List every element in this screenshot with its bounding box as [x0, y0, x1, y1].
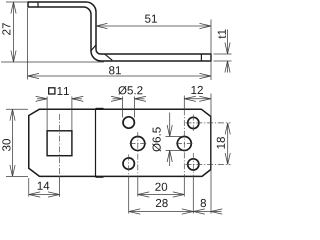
extension line H4 column to 20-dim — [183, 177, 185, 197]
dimension 6.5 extension lines — [166, 136, 184, 138]
dimension 14 label — [38, 182, 50, 190]
plan view: bend zone edge segment at bottom — [96, 176, 104, 178]
dimension 51 extension line right — [210, 20, 212, 81]
centerline vertical through H2 — [137, 132, 139, 177]
dimension 30 label — [2, 139, 10, 151]
dimension 11 arrows — [37, 98, 47, 100]
hole H2 (6.5mm, middle left) — [131, 137, 145, 151]
hole H5 (5.2mm, top right) — [188, 117, 199, 128]
plan view: plate outline with corner chamfers — [29, 109, 211, 176]
hole H4 (6.5mm, middle right) — [177, 137, 191, 151]
extension line H3 column to 28-dim — [128, 177, 130, 214]
side view: bracket Z-profile outline — [28, 2, 211, 61]
hole H6 (5.2mm, bottom right) — [188, 159, 199, 170]
centerline horizontal through H4 — [176, 143, 193, 145]
dimension 28 line — [129, 211, 211, 213]
centerline vertical through H3 — [128, 155, 130, 177]
side view: chamfer edge tick near plate right end — [200, 54, 202, 61]
dimension 30 extension lines — [6, 108, 28, 110]
dimension dia6.5 label — [152, 127, 161, 151]
centerline horizontal through H6 — [186, 163, 231, 165]
hole H1 (5.2mm, top left) — [123, 117, 134, 128]
side view: edge tick on top flange — [37, 2, 39, 7]
dimension 30 line — [12, 110, 14, 176]
dimension square-11 label — [49, 88, 55, 94]
centerline vertical through H4 — [183, 96, 185, 110]
dimension 18 label — [217, 137, 225, 149]
dimension 20 line — [138, 194, 185, 196]
dimension 11 extension lines — [46, 97, 48, 131]
plan view: square hole 11mm — [47, 131, 72, 156]
dimension 27 extension line top — [6, 1, 27, 3]
dimension 6.5 arrows — [169, 113, 171, 137]
dimension 81 extension line left — [27, 8, 29, 80]
dimension 12 label — [191, 86, 203, 94]
dimension 51 line — [96, 25, 211, 27]
centerline horizontal through H2 — [130, 143, 147, 145]
dimension 81 label — [109, 66, 121, 74]
dimension 14 extension line — [28, 178, 30, 197]
centerline vertical through H5 — [192, 115, 194, 132]
dimension 27 label — [2, 23, 10, 35]
side view: bend tangent mark at plate start — [105, 54, 112, 60]
hole H3 (5.2mm, bottom left) — [123, 158, 134, 169]
dimension 20 label — [155, 183, 167, 191]
dimension 27 line — [13, 3, 15, 61]
dimension 28 label — [156, 199, 168, 207]
extension line H2 column to 20-dim — [137, 177, 139, 197]
dimension t1 label — [218, 30, 226, 39]
dimension t1 arrows — [227, 30, 229, 54]
dimension 8 label — [201, 199, 206, 207]
plan view: bend zone edge segment at top — [96, 107, 104, 109]
dimension 12 line — [184, 98, 211, 100]
dimension 8 arrows — [193, 209, 205, 214]
dimension t1 extension lines — [214, 53, 232, 55]
extension line H6 column to 28-dim — [192, 177, 194, 214]
extension of square centerline below plate — [59, 177, 61, 198]
dimension 5.2 arrows — [113, 98, 123, 100]
dimension 5.2 extension lines — [122, 97, 124, 118]
centerline vertical through H6 — [192, 153, 194, 177]
dimension 18 line — [227, 124, 229, 164]
dimension 81 line — [28, 75, 212, 77]
side view: bend tangent mark at web lower bend — [91, 45, 96, 51]
centerline horizontal through H5 — [186, 122, 231, 124]
centerline of square hole — [59, 114, 61, 177]
dimension 14 line — [29, 194, 60, 196]
right extension line for 12/8 dims — [210, 94, 212, 214]
plan view: bend edge line between clamp part and plate — [95, 109, 97, 176]
dimension dia5.2 label — [118, 86, 142, 95]
dimension 27 extension line bottom — [1, 61, 104, 63]
dimension 51 label — [145, 15, 157, 23]
